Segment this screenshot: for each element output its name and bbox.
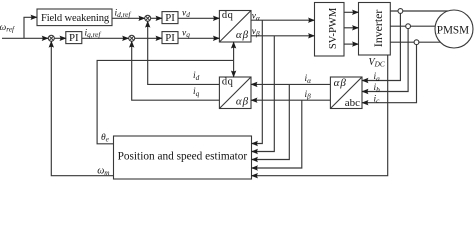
- svg-text:iβ: iβ: [305, 90, 312, 101]
- block Position and speed estimator: [114, 136, 252, 179]
- arrowhead i_q up into junction2: [129, 41, 134, 48]
- svg-text:vq: vq: [182, 29, 190, 40]
- wire junction0 to PI0: [54, 37, 66, 39]
- arrowhead i_d up into junction1: [145, 21, 150, 28]
- svg-text:iq: iq: [193, 87, 200, 98]
- wire phase c inverter to PMSM: [390, 41, 440, 43]
- svg-text:αβ: αβ: [236, 29, 249, 41]
- wire current sensor a down to i_a: [362, 13, 400, 80]
- svg-text:vd: vd: [182, 9, 190, 20]
- block abc to alphabeta transform: [330, 77, 362, 109]
- wire PI0 to junction2 (i_q_ref): [82, 37, 129, 39]
- svg-text:αβ: αβ: [236, 96, 249, 108]
- svg-text:id: id: [193, 71, 200, 82]
- wire v_beta dq to SV-PWM: [251, 35, 315, 37]
- wire i_d feedback from lower dq to junction1: [148, 21, 220, 85]
- arrowhead i_beta into estimator: [251, 165, 258, 170]
- wire v_alpha branch down to estimator: [252, 20, 263, 143]
- arrowhead gate1 into Inverter: [352, 10, 359, 15]
- current sensor tap b: [406, 24, 411, 29]
- current sensor tap a: [398, 9, 403, 14]
- summing junction q-current loop: [129, 35, 135, 41]
- block PI q-axis current controller: [162, 32, 178, 44]
- arrowhead gate3 into Inverter: [352, 41, 359, 46]
- svg-text:iα: iα: [305, 74, 312, 85]
- arrowhead V_DC into estimator: [251, 173, 258, 178]
- wire current sensor b down to i_b: [362, 29, 408, 92]
- svg-text:dq: dq: [222, 10, 234, 21]
- arrowhead into junction1: [138, 16, 145, 21]
- arrowhead i_a into abc box: [362, 78, 369, 83]
- wire i_alpha abc box to lower dq: [251, 83, 330, 85]
- wire gate signal 1 SV-PWM to Inverter: [344, 11, 359, 13]
- block PI d-axis current controller: [162, 12, 178, 24]
- svg-text:PI: PI: [69, 32, 79, 44]
- wire i_beta abc box to lower dq: [251, 99, 330, 101]
- arrowhead into junction2: [122, 36, 129, 41]
- wire gate signal 3 SV-PWM to Inverter: [344, 43, 359, 45]
- svg-text:SV-PWM: SV-PWM: [328, 7, 339, 49]
- block Field weakening: [37, 9, 112, 26]
- arrowhead v_d into upper dq: [213, 16, 220, 21]
- svg-text:Field weakening: Field weakening: [41, 13, 110, 24]
- wire phase a inverter to PMSM: [390, 10, 448, 12]
- arrowhead v_alpha into SV-PWM: [308, 18, 315, 23]
- arrowhead into field weakening: [31, 15, 38, 20]
- current sensor tap c: [414, 40, 419, 45]
- svg-text:PI: PI: [165, 32, 175, 44]
- block alphabeta to dq current transform: [219, 77, 251, 109]
- arrowhead v_q into upper dq: [213, 36, 220, 41]
- summing junction speed loop: [48, 35, 54, 41]
- arrowhead i_alpha into lower dq: [251, 82, 258, 87]
- wire PI2 to upper dq (v_q): [178, 37, 219, 39]
- arrowhead v_beta into estimator: [251, 149, 258, 154]
- block SV-PWM: [315, 3, 345, 57]
- arrowhead i_c into abc box: [362, 100, 369, 105]
- svg-text:iq,ref: iq,ref: [85, 28, 102, 39]
- svg-text:PMSM: PMSM: [437, 24, 469, 36]
- wire i_q feedback from lower dq to junction2: [132, 41, 220, 100]
- arrowhead theta_e down into lower dq: [231, 71, 236, 78]
- svg-text:ib: ib: [374, 83, 381, 94]
- arrowhead into PI0: [60, 36, 67, 41]
- wire PI1 to upper dq (v_d): [178, 17, 219, 19]
- wire v_alpha dq to SV-PWM: [251, 19, 315, 21]
- wire i_beta branch down to estimator: [252, 100, 302, 168]
- svg-text:abc: abc: [345, 97, 360, 109]
- svg-text:Position and speed estimator: Position and speed estimator: [118, 151, 248, 163]
- arrowhead gate2 into Inverter: [352, 25, 359, 30]
- PMSM machine circle: [435, 10, 473, 48]
- arrowhead into junction0: [42, 36, 49, 41]
- arrowhead into PI1: [156, 16, 163, 21]
- wire junction2 to PI2: [135, 37, 163, 39]
- wire theta_e branch up to upper dq: [233, 42, 235, 60]
- wire omega_m feedback estimator to junction0: [51, 41, 113, 176]
- arrowhead v_beta into SV-PWM: [308, 33, 315, 38]
- arrowhead i_alpha into estimator: [251, 157, 258, 162]
- wire branch up to field weakening input: [24, 17, 37, 38]
- arrowhead v_alpha into estimator: [251, 141, 258, 146]
- svg-text:VDC: VDC: [369, 57, 385, 69]
- svg-text:αβ: αβ: [334, 77, 347, 89]
- block PI speed controller: [66, 32, 82, 44]
- svg-text:ωm: ωm: [97, 165, 109, 177]
- block dq to alphabeta voltage transform: [219, 11, 251, 43]
- svg-text:ωref: ωref: [0, 23, 15, 34]
- wire omega_ref input to junction0: [2, 37, 48, 39]
- svg-text:id,ref: id,ref: [115, 8, 132, 19]
- wire field weakening to junction1 (i_d_ref): [112, 17, 145, 19]
- wire current sensor c down to i_c: [362, 45, 417, 103]
- wire i_alpha branch down to estimator: [252, 84, 290, 159]
- wire phase b inverter to PMSM: [390, 25, 435, 27]
- svg-text:θe: θe: [101, 133, 110, 144]
- arrowhead theta_e up into upper dq: [231, 42, 236, 49]
- wire gate signal 2 SV-PWM to Inverter: [344, 27, 359, 29]
- svg-text:vβ: vβ: [252, 27, 260, 38]
- svg-text:vα: vα: [252, 12, 260, 23]
- summing junction d-current loop: [145, 15, 151, 21]
- arrowhead i_b into abc box: [362, 89, 369, 94]
- wire junction1 to PI1: [151, 17, 163, 19]
- wire theta_e from estimator to distribution rail: [97, 60, 234, 143]
- svg-text:ic: ic: [374, 94, 381, 105]
- svg-text:ia: ia: [374, 72, 381, 83]
- arrowhead omega_m up into junction0: [49, 41, 54, 48]
- arrowhead i_beta into lower dq: [251, 98, 258, 103]
- block Inverter: [359, 3, 391, 56]
- wire V_DC from inverter bottom down to estimator: [252, 55, 388, 176]
- wire theta_e branch down to lower dq: [233, 60, 235, 77]
- wire v_beta branch down to estimator: [252, 36, 275, 152]
- arrowhead into PI2: [156, 36, 163, 41]
- svg-text:dq: dq: [222, 77, 234, 88]
- svg-text:PI: PI: [165, 12, 175, 24]
- svg-text:Inverter: Inverter: [371, 10, 385, 47]
